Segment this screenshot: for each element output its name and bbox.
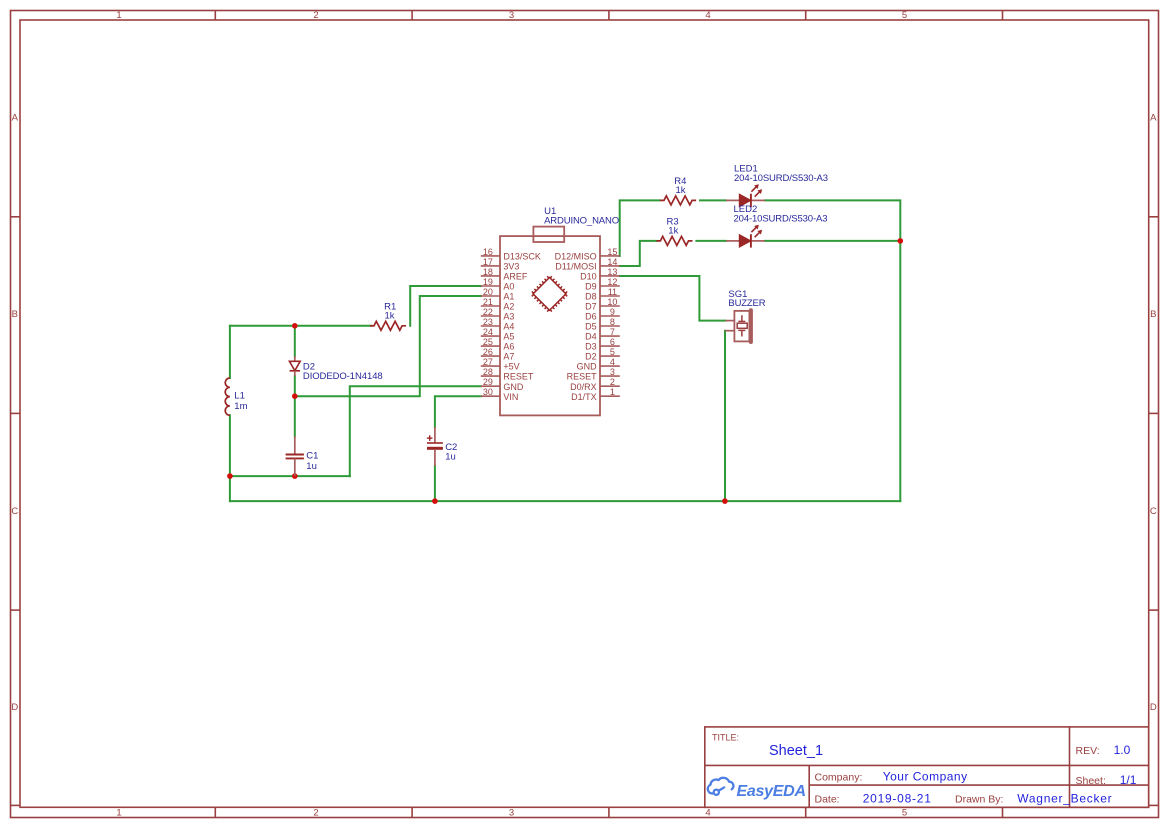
svg-text:12: 12 [607, 277, 617, 287]
svg-text:3: 3 [610, 367, 615, 377]
svg-text:Wagner_Becker: Wagner_Becker [1017, 791, 1111, 805]
svg-text:BUZZER: BUZZER [728, 298, 765, 309]
svg-text:11: 11 [608, 287, 617, 297]
svg-text:REV:: REV: [1076, 745, 1100, 757]
svg-text:7: 7 [610, 327, 615, 337]
svg-text:B: B [1150, 309, 1156, 320]
svg-text:Drawn By:: Drawn By: [955, 793, 1003, 805]
svg-text:D: D [11, 702, 18, 713]
svg-text:4: 4 [705, 10, 710, 21]
svg-text:30: 30 [483, 387, 493, 397]
svg-text:23: 23 [483, 317, 493, 327]
svg-text:1u: 1u [306, 461, 317, 472]
svg-text:A5: A5 [503, 332, 514, 342]
svg-text:D4: D4 [585, 332, 597, 342]
svg-text:1m: 1m [234, 401, 247, 412]
svg-text:5: 5 [902, 10, 907, 21]
svg-text:DIODEDO-1N4148: DIODEDO-1N4148 [303, 371, 383, 382]
svg-text:D2: D2 [585, 352, 597, 362]
svg-text:Date:: Date: [815, 793, 840, 805]
svg-text:VIN: VIN [503, 392, 518, 402]
svg-text:Company:: Company: [815, 771, 863, 783]
svg-text:A6: A6 [503, 342, 514, 352]
svg-text:1k: 1k [668, 226, 678, 237]
svg-text:5: 5 [610, 347, 615, 357]
svg-text:L1: L1 [234, 390, 245, 401]
svg-text:A7: A7 [503, 352, 514, 362]
svg-text:9: 9 [610, 307, 615, 317]
svg-text:A4: A4 [503, 322, 514, 332]
svg-text:EasyEDA: EasyEDA [737, 783, 807, 800]
svg-text:2: 2 [313, 10, 318, 21]
svg-text:D7: D7 [585, 302, 597, 312]
svg-text:3: 3 [509, 808, 514, 819]
svg-text:D3: D3 [585, 342, 597, 352]
svg-text:1: 1 [610, 387, 615, 397]
svg-text:26: 26 [483, 347, 493, 357]
svg-text:4: 4 [705, 808, 710, 819]
svg-text:A: A [12, 113, 19, 124]
svg-text:+5V: +5V [503, 362, 519, 372]
svg-text:A0: A0 [503, 282, 514, 292]
svg-text:AREF: AREF [503, 272, 528, 282]
svg-text:GND: GND [577, 362, 598, 372]
svg-text:15: 15 [607, 247, 617, 257]
svg-text:1.0: 1.0 [1114, 743, 1131, 757]
svg-text:C: C [11, 506, 18, 517]
svg-text:204-10SURD/S530-A3: 204-10SURD/S530-A3 [734, 214, 828, 225]
svg-text:2: 2 [610, 377, 615, 387]
svg-text:2019-08-21: 2019-08-21 [863, 791, 932, 805]
svg-text:204-10SURD/S530-A3: 204-10SURD/S530-A3 [734, 173, 828, 184]
svg-text:Your Company: Your Company [883, 770, 967, 784]
svg-text:A3: A3 [503, 312, 514, 322]
svg-text:D9: D9 [585, 282, 597, 292]
svg-text:2: 2 [313, 808, 318, 819]
svg-text:16: 16 [483, 247, 493, 257]
svg-text:22: 22 [483, 307, 493, 317]
svg-text:C: C [1150, 506, 1157, 517]
svg-text:D13/SCK: D13/SCK [503, 252, 541, 262]
svg-text:D11/MOSI: D11/MOSI [555, 262, 596, 272]
svg-text:D10: D10 [580, 272, 597, 282]
svg-text:24: 24 [483, 327, 493, 337]
svg-text:A: A [1150, 113, 1157, 124]
svg-text:D6: D6 [585, 312, 597, 322]
svg-text:19: 19 [483, 277, 493, 287]
svg-text:Sheet_1: Sheet_1 [769, 743, 823, 759]
svg-text:RESET: RESET [567, 372, 598, 382]
svg-text:A2: A2 [503, 302, 514, 312]
svg-text:1k: 1k [385, 311, 395, 322]
svg-text:21: 21 [483, 297, 493, 307]
svg-text:TITLE:: TITLE: [712, 733, 739, 743]
svg-text:D: D [1150, 702, 1157, 713]
svg-text:18: 18 [483, 267, 493, 277]
svg-text:3: 3 [509, 10, 514, 21]
svg-text:D0/RX: D0/RX [570, 382, 597, 392]
svg-text:C1: C1 [306, 451, 318, 462]
svg-text:25: 25 [483, 337, 493, 347]
svg-text:Sheet:: Sheet: [1076, 775, 1106, 787]
svg-text:28: 28 [483, 367, 493, 377]
svg-text:29: 29 [483, 377, 493, 387]
svg-text:D1/TX: D1/TX [571, 392, 597, 402]
svg-text:D12/MISO: D12/MISO [555, 252, 597, 262]
svg-text:A1: A1 [503, 292, 514, 302]
svg-text:D8: D8 [585, 292, 597, 302]
svg-text:1u: 1u [445, 451, 456, 462]
svg-text:1: 1 [116, 808, 121, 819]
svg-text:ARDUINO_NANO: ARDUINO_NANO [544, 215, 619, 226]
svg-text:1/1: 1/1 [1120, 773, 1137, 787]
svg-text:20: 20 [483, 287, 493, 297]
svg-text:B: B [12, 309, 18, 320]
svg-text:D5: D5 [585, 322, 597, 332]
svg-text:RESET: RESET [503, 372, 534, 382]
svg-text:4: 4 [610, 357, 615, 367]
svg-text:10: 10 [607, 297, 617, 307]
svg-text:5: 5 [902, 808, 907, 819]
svg-text:13: 13 [607, 267, 617, 277]
svg-text:1k: 1k [676, 185, 686, 196]
svg-text:8: 8 [610, 317, 615, 327]
svg-text:3V3: 3V3 [503, 262, 519, 272]
svg-text:14: 14 [607, 257, 617, 267]
svg-text:17: 17 [483, 257, 493, 267]
svg-text:27: 27 [483, 357, 493, 367]
svg-text:GND: GND [503, 382, 524, 392]
svg-text:6: 6 [610, 337, 615, 347]
svg-text:1: 1 [116, 10, 121, 21]
